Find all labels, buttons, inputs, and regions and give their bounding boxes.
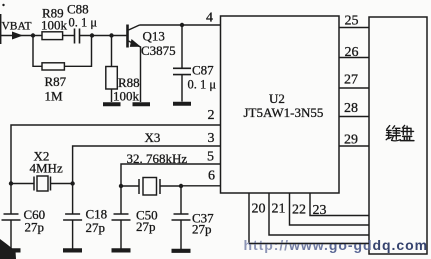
svg-text:29: 29 xyxy=(344,133,358,148)
svg-text:23: 23 xyxy=(313,203,327,218)
svg-text:R87: R87 xyxy=(45,74,67,89)
svg-text:27p: 27p xyxy=(86,220,106,235)
svg-text:27p: 27p xyxy=(25,220,45,235)
svg-text:27: 27 xyxy=(344,73,358,88)
svg-text:4: 4 xyxy=(206,11,213,26)
svg-text:100k: 100k xyxy=(41,18,68,33)
svg-text:3: 3 xyxy=(208,131,215,146)
svg-text:20: 20 xyxy=(252,202,266,217)
svg-text:1M: 1M xyxy=(45,89,64,104)
svg-text:VBAT: VBAT xyxy=(2,21,32,33)
svg-text:JT5AW1-3N55: JT5AW1-3N55 xyxy=(244,105,324,120)
svg-text:C3875: C3875 xyxy=(141,43,176,58)
svg-text:26: 26 xyxy=(345,45,359,60)
svg-text:Q13: Q13 xyxy=(143,29,165,44)
svg-text:C87: C87 xyxy=(192,63,214,78)
svg-text:0. 1 μ: 0. 1 μ xyxy=(188,78,217,92)
svg-text:4MHz: 4MHz xyxy=(30,161,63,176)
svg-text:27p: 27p xyxy=(136,219,156,234)
svg-text:28: 28 xyxy=(344,101,358,116)
svg-text:32. 768kHz: 32. 768kHz xyxy=(127,151,188,166)
svg-text:100k: 100k xyxy=(113,89,140,104)
svg-text:U2: U2 xyxy=(269,91,285,106)
svg-text:21: 21 xyxy=(272,202,286,217)
svg-text:http://www.go-gddq.com: http://www.go-gddq.com xyxy=(244,237,428,253)
svg-text:2: 2 xyxy=(208,108,215,123)
svg-text:C88: C88 xyxy=(67,2,89,17)
svg-text:5: 5 xyxy=(207,150,214,165)
svg-text:6: 6 xyxy=(208,169,215,184)
svg-text:0. 1 μ: 0. 1 μ xyxy=(69,16,98,30)
svg-text:22: 22 xyxy=(292,203,306,218)
svg-text:25: 25 xyxy=(345,14,359,29)
svg-text:27p: 27p xyxy=(192,222,212,237)
svg-text:X3: X3 xyxy=(145,130,161,145)
